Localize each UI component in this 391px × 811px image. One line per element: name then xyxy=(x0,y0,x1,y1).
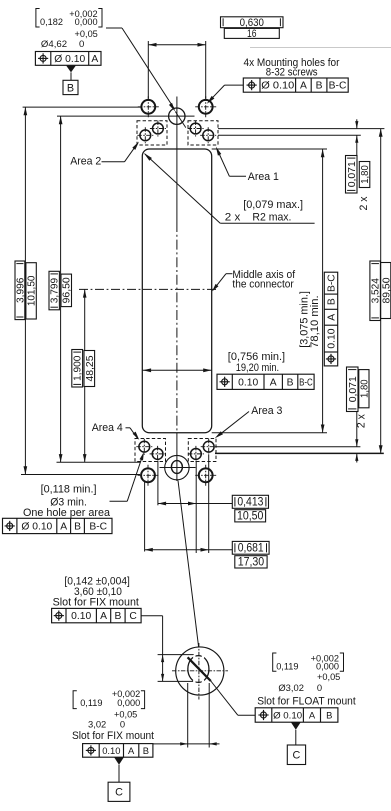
label middle axis of the connector xyxy=(212,269,296,291)
label 0,118 min dia 3 min one hole per area xyxy=(23,452,144,519)
vertical centerline xyxy=(176,97,178,482)
svg-text:Ø 0.10: Ø 0.10 xyxy=(273,710,302,721)
svg-text:A: A xyxy=(91,54,98,65)
label Area 2 xyxy=(70,142,139,168)
svg-text:A: A xyxy=(326,314,337,321)
svg-text:1,80: 1,80 xyxy=(359,379,370,398)
mounting hole top-right xyxy=(195,96,216,117)
svg-text:Ø4,62: Ø4,62 xyxy=(41,39,67,50)
svg-text:the connector: the connector xyxy=(232,278,294,290)
label 4x Mounting holes xyxy=(244,57,340,79)
FCF slot FIX mount upper xyxy=(52,608,142,622)
svg-text:B: B xyxy=(287,377,294,388)
dimension box 96,50 xyxy=(61,274,73,307)
svg-text:0: 0 xyxy=(120,718,125,729)
svg-text:A: A xyxy=(300,81,307,92)
svg-text:0,071: 0,071 xyxy=(347,161,358,187)
svg-text:0,000: 0,000 xyxy=(316,661,339,671)
svg-text:B-C: B-C xyxy=(326,274,337,292)
label 0,142 3,60 slot for FIX mount xyxy=(53,576,139,609)
FCF slot FLOAT mount xyxy=(255,708,338,722)
svg-text:Ø 0.10: Ø 0.10 xyxy=(54,54,85,65)
svg-text:A: A xyxy=(270,377,277,388)
svg-text:1,80: 1,80 xyxy=(360,165,371,184)
svg-text:A: A xyxy=(128,745,135,756)
connector outline rectangle xyxy=(142,149,211,433)
svg-text:48,25: 48,25 xyxy=(85,355,96,381)
svg-text:96,50: 96,50 xyxy=(62,277,73,303)
FCF one hole per area xyxy=(3,518,113,533)
svg-text:Area 1: Area 1 xyxy=(248,171,279,183)
svg-text:Ø3,02: Ø3,02 xyxy=(278,682,304,693)
svg-text:Area 3: Area 3 xyxy=(251,405,282,417)
svg-text:B: B xyxy=(67,82,74,94)
svg-text:Slot for FIX mount: Slot for FIX mount xyxy=(72,730,154,742)
svg-text:B: B xyxy=(326,710,332,721)
Area 2 holes xyxy=(137,121,166,144)
svg-text:Slot for FIX mount: Slot for FIX mount xyxy=(53,597,139,609)
svg-text:C: C xyxy=(115,787,123,799)
svg-text:Area 4: Area 4 xyxy=(92,422,123,434)
svg-text:0,000: 0,000 xyxy=(117,698,140,708)
svg-text:B: B xyxy=(316,81,323,92)
svg-text:[0,118 min.]: [0,118 min.] xyxy=(41,484,97,496)
dimension box 48,25 xyxy=(84,351,96,387)
FIX mount hole top-center xyxy=(169,108,185,124)
dimension box 10,50 xyxy=(235,509,266,522)
mounting hole bottom-left xyxy=(138,465,159,486)
dimension box 16 xyxy=(224,28,279,40)
svg-text:0: 0 xyxy=(317,682,322,693)
dimension box 89,50 xyxy=(381,263,391,319)
svg-text:8-32 screws: 8-32 screws xyxy=(266,67,318,79)
svg-text:0,119: 0,119 xyxy=(80,698,102,708)
svg-text:+0,05: +0,05 xyxy=(75,29,98,39)
svg-text:0,119: 0,119 xyxy=(276,661,298,671)
dimension 1,900/48,25 line xyxy=(83,289,87,462)
slot obround in detail xyxy=(188,655,209,684)
Area 4 dashed box xyxy=(135,439,166,462)
svg-text:3,02: 3,02 xyxy=(88,718,106,729)
dimension box 101,50 xyxy=(26,263,38,319)
svg-text:+0,05: +0,05 xyxy=(317,672,340,682)
svg-text:0.10: 0.10 xyxy=(238,377,258,388)
dimension 3,996/101,50 line xyxy=(21,107,141,474)
svg-text:17,30: 17,30 xyxy=(238,555,265,568)
text 0,756 min 19,20 min xyxy=(228,351,285,374)
svg-text:B: B xyxy=(143,745,149,756)
leader from FCF to top-right mounting hole xyxy=(207,85,244,104)
svg-text:0,071: 0,071 xyxy=(348,376,359,402)
svg-text:3,524: 3,524 xyxy=(371,278,382,304)
svg-text:0: 0 xyxy=(79,39,84,50)
Area 1 holes xyxy=(188,121,217,144)
svg-text:Ø 0.10: Ø 0.10 xyxy=(21,522,52,533)
svg-text:A: A xyxy=(100,611,107,622)
svg-text:101,50: 101,50 xyxy=(27,275,38,306)
dimension box 1,80 bottom xyxy=(359,370,371,408)
dimension 0,756/19,20 line xyxy=(142,368,211,372)
dimension 0,630/16 line xyxy=(148,43,205,47)
datum C lower left xyxy=(108,757,130,801)
svg-text:A: A xyxy=(309,710,316,721)
svg-text:B-C: B-C xyxy=(299,377,313,388)
svg-text:2 x: 2 x xyxy=(225,211,241,223)
svg-text:C: C xyxy=(129,611,137,622)
dimension 3,524/89,50 line xyxy=(379,129,383,454)
svg-text:0.10: 0.10 xyxy=(102,745,120,756)
svg-text:0.10: 0.10 xyxy=(326,328,337,348)
dimension 0,413/10,50 line xyxy=(158,502,232,506)
FCF 19,20 xyxy=(217,374,314,389)
dimension box 1,80 top xyxy=(359,162,371,188)
svg-text:One hole per area: One hole per area xyxy=(23,507,111,519)
Area 2 dashed box xyxy=(137,121,167,145)
label Area 3 xyxy=(215,405,283,438)
Area 3 dashed box xyxy=(188,439,216,462)
svg-text:1,900: 1,900 xyxy=(73,355,84,381)
svg-text:Ø 0.10: Ø 0.10 xyxy=(261,81,294,92)
leader from 4,62 text to FIX hole xyxy=(106,28,186,128)
dimension box 0,071 top xyxy=(346,156,358,194)
svg-text:+0,05: +0,05 xyxy=(114,710,137,720)
svg-text:C: C xyxy=(293,750,301,762)
dimension 3,799/96,50 line xyxy=(57,116,195,462)
horizontal middle axis centerline xyxy=(79,288,217,290)
R2 max corner radius callout xyxy=(144,153,315,223)
dimension 3,075/78,10 line xyxy=(321,149,325,433)
svg-text:0,413: 0,413 xyxy=(237,495,263,508)
dimension box 0,681 xyxy=(232,541,269,554)
label Area 1 xyxy=(216,147,279,183)
svg-text:2 x: 2 x xyxy=(358,196,370,211)
dimension box 0,413 xyxy=(232,495,268,508)
svg-text:2 x: 2 x xyxy=(356,413,368,428)
Area 3 holes xyxy=(188,439,217,462)
svg-text:B: B xyxy=(74,522,81,533)
label 0,119 3,02 slot for FIX mount lower xyxy=(72,689,154,742)
svg-text:0,182: 0,182 xyxy=(40,17,63,27)
dimension 0,630/16 extension lines xyxy=(148,41,205,99)
mounting hole top-left xyxy=(138,96,159,117)
svg-text:16: 16 xyxy=(247,28,257,40)
label 0,119 3,02 slot for FLOAT mount xyxy=(257,653,356,707)
leader from FLOAT hole to detail view xyxy=(178,481,199,647)
svg-text:B: B xyxy=(326,298,337,305)
FCF 78,10 rotated xyxy=(324,272,337,366)
svg-text:A: A xyxy=(60,522,67,533)
FCF slot FIX mount lower xyxy=(83,744,153,758)
svg-text:B: B xyxy=(114,611,121,622)
leader from FLOAT FCF to slot xyxy=(238,714,255,716)
datum C bottom right xyxy=(287,722,305,764)
dimension box 17,30 xyxy=(235,555,267,568)
Area 1 dashed box xyxy=(188,121,218,145)
svg-text:Slot for FLOAT mount: Slot for FLOAT mount xyxy=(257,695,356,707)
svg-text:B-C: B-C xyxy=(329,81,347,92)
FCF 4x mounting holes xyxy=(243,78,348,92)
dimension box 0,071 bottom xyxy=(347,367,359,412)
dimension box 3,524 xyxy=(370,261,382,321)
svg-text:78,10 min.: 78,10 min. xyxy=(309,295,321,347)
svg-text:B-C: B-C xyxy=(89,522,107,533)
svg-text:89,50: 89,50 xyxy=(381,277,391,303)
dimension 2x 0,071/1,80 bottom ext lines xyxy=(215,412,384,463)
dimension box 1,900 xyxy=(72,350,84,388)
detail crosshair xyxy=(172,643,228,700)
datum B tolerance text block xyxy=(36,9,102,51)
datum B symbol xyxy=(63,66,78,95)
text 3,075 min 78,10 min rotated xyxy=(299,291,322,348)
FCF position dia 4,62 xyxy=(35,52,101,66)
dimension 0,681/17,30 line xyxy=(145,548,233,552)
bottom cluster extension lines xyxy=(145,455,209,553)
Area 4 holes xyxy=(136,439,165,462)
dimension box 0,630 xyxy=(221,17,284,29)
svg-text:0.10: 0.10 xyxy=(71,611,91,622)
svg-text:[0,079 max.]: [0,079 max.] xyxy=(243,199,303,211)
svg-text:10,50: 10,50 xyxy=(237,509,264,522)
dimension 2x 0,071/1,80 top xyxy=(218,119,384,155)
svg-text:0,000: 0,000 xyxy=(75,17,98,27)
mounting hole bottom-right xyxy=(195,465,216,486)
leader from FCF to slot length dimension xyxy=(141,616,194,682)
svg-text:3,799: 3,799 xyxy=(50,278,61,304)
bold diagonal through slot xyxy=(188,657,238,715)
svg-text:3,996: 3,996 xyxy=(15,277,26,303)
svg-text:R2 max.: R2 max. xyxy=(252,211,291,223)
dimension box 3,799 xyxy=(49,271,61,310)
svg-text:0,681: 0,681 xyxy=(238,541,264,554)
dimension 3,075/78,10 ext lines xyxy=(212,149,327,433)
faint extension top right xyxy=(250,47,391,49)
svg-text:Area 2: Area 2 xyxy=(70,156,101,168)
detail view circle xyxy=(176,647,224,695)
dimension 3,02 ext lines and line xyxy=(153,683,220,748)
svg-text:19,20 min.: 19,20 min. xyxy=(236,362,279,374)
label Area 4 xyxy=(92,422,140,440)
dimension box 3,996 xyxy=(15,261,26,320)
FLOAT mount hole bottom-center xyxy=(160,455,196,479)
